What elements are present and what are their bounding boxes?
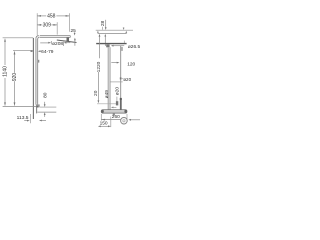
svg-text:1220: 1220 [96, 61, 102, 72]
top dim up arrow below line2 [104, 36, 106, 46]
dim ø208 right tick and arrow [62, 42, 64, 46]
hose end bulge [120, 77, 122, 79]
arm inner fill [38, 36, 71, 38]
svg-text:113.5: 113.5 [17, 115, 29, 121]
dim 80 down arrow [44, 102, 46, 105]
holder nub on pipe [38, 60, 40, 63]
svg-text:80: 80 [42, 92, 48, 98]
dim 80 reference line lower [37, 111, 56, 113]
top reference line 2 [98, 33, 127, 35]
dim 113.5 extension line [29, 114, 31, 123]
head disc (edge-on, slightly tilted) [57, 40, 77, 43]
outlet stub below bar [113, 113, 115, 115]
extension line 920 top [13, 49, 33, 51]
label ø26.5 leader arrow [113, 45, 125, 47]
dim 260 line [101, 119, 127, 121]
head centre hub below disc [106, 44, 109, 47]
hand shower in holder [36, 104, 40, 107]
svg-text:64-79: 64-79 [41, 49, 54, 55]
dim 25 up arrow [74, 40, 76, 46]
dim 920 arrowheads [14, 51, 16, 55]
dim 458 arrowheads [37, 15, 41, 17]
head stem [67, 38, 70, 42]
dim 309 line [37, 24, 42, 26]
riser pipe (side view) [36, 39, 38, 103]
dim 64-79 right arrow [39, 50, 42, 52]
svg-text:150: 150 [100, 121, 108, 127]
small tick above line1 [102, 27, 104, 30]
ceiling extension line (1140 top) [3, 37, 34, 39]
svg-text:28: 28 [100, 21, 106, 27]
dim 309 arrowheads [37, 24, 41, 26]
holder clamp blob [116, 101, 118, 105]
svg-text:1140: 1140 [3, 66, 9, 77]
dim 458 line [37, 15, 46, 17]
hose coupling at head [121, 47, 122, 51]
svg-text:260: 260 [112, 114, 120, 120]
dim 150 right extension [110, 117, 112, 128]
dim ø208 left arrow and tick [40, 42, 48, 44]
svg-text:ø20: ø20 [114, 87, 120, 96]
svg-text:458: 458 [47, 13, 56, 19]
mixer bar [101, 110, 127, 113]
top dim 28 line and down arrow [105, 20, 107, 28]
dim 920 vertical line [14, 54, 16, 73]
dim 1140 arrowheads [4, 38, 6, 42]
dim 260 extension lines [100, 114, 102, 121]
svg-text:ø26.5: ø26.5 [128, 44, 140, 50]
dim 64-79 left arrow [29, 50, 32, 52]
faint hose continuation [120, 99, 122, 110]
small down arrow right end above line1 [123, 26, 125, 29]
floor line [3, 105, 39, 107]
top reference line 1 [96, 29, 133, 31]
mixer bar left cap [101, 110, 103, 113]
extension line at holder level [97, 103, 117, 105]
dim 25 down arrow [74, 31, 76, 34]
dim 458 extension line left [36, 13, 38, 35]
small up arrow between top lines [97, 31, 99, 33]
svg-text:ø20: ø20 [123, 77, 131, 82]
leader toward hand shower ball from right edge [130, 119, 140, 121]
dim 309 extension right [56, 22, 58, 34]
dim 80 up arrow [44, 115, 46, 117]
dim 1140 vertical line [4, 42, 6, 65]
head disc (front) [96, 43, 126, 45]
dim 113.5 right-pointing arrow [24, 120, 27, 122]
small up arrow right end below line1 [125, 31, 127, 33]
mixer bar right cap [124, 110, 126, 113]
svg-text:20: 20 [93, 90, 99, 96]
leader arrow pointing right at hose [111, 62, 117, 64]
dim 458 extension line right [68, 13, 70, 32]
dim 150 line with arrows [100, 125, 108, 127]
riser pipe (front) [108, 47, 110, 109]
hose [36, 107, 38, 113]
hand shower handle above bar [120, 98, 122, 100]
label ø20 leader down [116, 97, 118, 103]
dim 113.5 left-pointing arrow [42, 120, 46, 122]
dim 1220 line lower [97, 72, 99, 101]
dim 80 reference line upper [40, 106, 56, 108]
svg-text:ø208: ø208 [52, 41, 63, 47]
reference line below hose end [111, 81, 123, 83]
svg-text:ø49: ø49 [104, 90, 110, 99]
wall line [32, 38, 34, 119]
hand shower head circle [121, 117, 128, 124]
tick on disc right area [123, 41, 125, 44]
svg-text:120: 120 [127, 62, 135, 68]
svg-text:309: 309 [43, 22, 52, 28]
svg-text:920: 920 [12, 73, 18, 82]
pipe bend to arm [36, 36, 39, 39]
small leader arrow at pipe [113, 106, 117, 108]
shower arm (horizontal tube) [40, 35, 71, 37]
hand shower hose hanging from head [120, 46, 122, 110]
dim 1220 line upper [99, 36, 101, 58]
